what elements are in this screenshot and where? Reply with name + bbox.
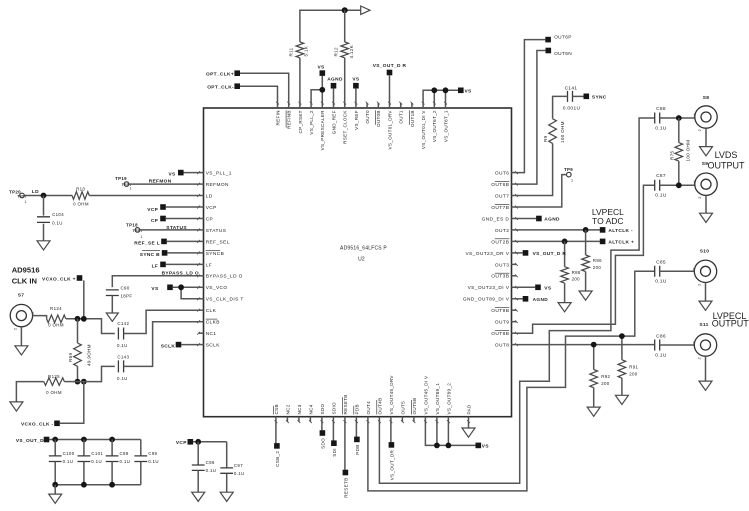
- junction VS_OUT89_1: [434, 443, 440, 449]
- svg-text:R10: R10: [76, 187, 85, 192]
- wire S8 to ground: [705, 128, 707, 146]
- svg-text:OUT3B: OUT3B: [491, 274, 509, 280]
- node VS_OUT_DR terminal: [390, 422, 392, 443]
- ground below decoupling bank: [49, 494, 62, 503]
- node OPT_CLK- terminal: [234, 83, 240, 89]
- wire VS_OUT23_DRV to VS_OUT_D R: [517, 252, 523, 254]
- pin OUT8 (right): [512, 344, 517, 346]
- svg-text:OUT9B: OUT9B: [491, 308, 509, 314]
- wire TP20 to R10: [24, 195, 72, 197]
- wire GND_ESD pin to AGND: [517, 218, 537, 220]
- pin VS_OUT45_DI V (bottom): [424, 417, 426, 422]
- pin OUT7B (right): [512, 206, 517, 208]
- svg-text:REF_SE L: REF_SE L: [134, 241, 160, 247]
- junction VS_OUT89_2: [446, 443, 452, 449]
- svg-text:TP19: TP19: [115, 176, 127, 181]
- svg-text:U2: U2: [358, 257, 365, 263]
- resistor R10: [72, 192, 89, 200]
- wire C85 to S10: [660, 270, 695, 272]
- pin RESETB (bottom): [344, 417, 346, 422]
- capacitor C99: [140, 440, 142, 456]
- svg-text:C86: C86: [656, 333, 666, 339]
- svg-text:OUTPUT: OUTPUT: [712, 319, 749, 329]
- svg-text:REFMON: REFMON: [206, 182, 229, 188]
- wire TP18 to STATUS pin: [140, 229, 199, 231]
- wire C88 to S8: [660, 117, 695, 119]
- wire R11/R12 top rail to off-page arrow: [300, 10, 361, 42]
- pin OUT6B (right): [512, 183, 517, 185]
- svg-text:TP9: TP9: [564, 167, 573, 172]
- svg-text:OUT2B: OUT2B: [491, 239, 509, 245]
- pin LF (left): [199, 263, 204, 265]
- svg-text:OUT9: OUT9: [495, 320, 509, 326]
- svg-text:NC2: NC2: [285, 404, 290, 414]
- svg-text:0.1U: 0.1U: [117, 343, 128, 348]
- svg-text:VS: VS: [352, 77, 360, 83]
- pin CLKB (left): [199, 321, 204, 323]
- node AGND terminal (GND_OUT89_DIV): [523, 296, 529, 302]
- pin REF_SEL (left): [199, 240, 204, 242]
- pin VS_PLL_1 (left): [199, 172, 204, 174]
- svg-text:REFIN: REFIN: [275, 110, 280, 125]
- svg-text:LF: LF: [206, 262, 212, 268]
- svg-text:0.1U: 0.1U: [206, 468, 217, 473]
- resistor R91: [621, 336, 623, 360]
- junction C100 bottom: [52, 482, 58, 488]
- pin NC2 (bottom): [286, 417, 288, 422]
- svg-text:OUT6B: OUT6B: [491, 182, 509, 188]
- svg-text:C85: C85: [656, 259, 666, 265]
- pin VS_PRESCALER (top): [321, 103, 323, 108]
- svg-text:GND_ES D: GND_ES D: [482, 216, 510, 222]
- pin OUT5 (bottom): [401, 417, 403, 422]
- svg-text:C96: C96: [206, 460, 215, 465]
- wire R10 to LD pin: [89, 195, 198, 197]
- svg-text:SCLK: SCLK: [161, 344, 176, 350]
- svg-text:CP_RSET: CP_RSET: [298, 110, 303, 133]
- svg-text:R91: R91: [629, 365, 638, 370]
- wire OUT4 route to C85 (S10): [368, 271, 655, 491]
- svg-text:S10: S10: [700, 249, 710, 255]
- pin OUT3B (right): [512, 275, 517, 277]
- svg-text:GND_OUT89_DI V: GND_OUT89_DI V: [463, 297, 510, 303]
- node VS_OUT_D R terminal (right): [523, 250, 529, 256]
- resistor R124: [47, 315, 66, 323]
- svg-text:LVDS: LVDS: [715, 150, 738, 160]
- svg-text:0.1U: 0.1U: [655, 125, 667, 131]
- pin OUT4B (bottom): [378, 417, 380, 422]
- pin OUT2B (right): [512, 240, 517, 242]
- capacitor C97: [226, 442, 228, 468]
- pin VS_PLL_2 (top): [310, 103, 312, 108]
- svg-text:R11: R11: [289, 47, 294, 56]
- ground below S10: [699, 301, 712, 310]
- node SYNC terminal: [584, 94, 590, 100]
- wire REF_SEL: [167, 240, 199, 242]
- svg-text:R9: R9: [543, 135, 548, 142]
- junction C98 bottom: [109, 482, 115, 488]
- wire OUT8 route to C86 (S11): [517, 344, 655, 346]
- pin PAD (bottom): [468, 417, 470, 422]
- capacitor C96: [197, 442, 199, 465]
- svg-text:C90: C90: [121, 286, 130, 291]
- resistor R75: [678, 118, 680, 143]
- pin NC3 (bottom): [298, 417, 300, 422]
- wire VCP bus: [193, 441, 227, 443]
- svg-text:C88: C88: [656, 106, 666, 112]
- svg-text:200: 200: [629, 371, 638, 376]
- junction R86 top: [583, 227, 589, 233]
- ground below S11: [699, 381, 712, 390]
- pin CP (left): [199, 218, 204, 220]
- pin VS_OUT89_2 (bottom): [447, 417, 449, 422]
- node PDB terminal: [355, 422, 357, 437]
- pin VCP (left): [199, 206, 204, 208]
- svg-text:4.12K: 4.12K: [349, 44, 354, 58]
- wire PAD to ground: [468, 422, 470, 428]
- svg-text:OUT8B: OUT8B: [491, 331, 509, 337]
- ground below R86: [579, 291, 592, 300]
- svg-text:PDB: PDB: [354, 404, 359, 414]
- node OPT_CLK+ terminal: [234, 70, 240, 76]
- resistor R11: [296, 42, 304, 58]
- pin OUT4 (bottom): [367, 417, 369, 422]
- wire decoupling top bus: [49, 439, 141, 441]
- pin VS_OUT45_DRV (bottom): [390, 417, 392, 422]
- svg-text:PDB: PDB: [355, 444, 360, 454]
- svg-text:OUT1B: OUT1B: [410, 110, 415, 127]
- svg-text:REF_SEL: REF_SEL: [206, 239, 230, 245]
- capacitor C90: [106, 290, 119, 296]
- pin VS_OUT23_DI V (right): [512, 286, 517, 288]
- svg-text:R124: R124: [50, 306, 62, 311]
- svg-text:NC4: NC4: [308, 404, 313, 414]
- capacitor C98: [111, 440, 113, 456]
- svg-text:C100: C100: [63, 451, 75, 456]
- svg-text:VCP: VCP: [206, 205, 217, 211]
- svg-text:ALTCLK +: ALTCLK +: [608, 240, 634, 246]
- junction R75 bottom: [676, 182, 682, 188]
- svg-text:0.1U: 0.1U: [655, 279, 667, 285]
- wire SYNCB: [167, 252, 198, 254]
- ground below C97: [220, 492, 233, 501]
- wire clock- node: [78, 366, 115, 381]
- svg-text:R75: R75: [670, 151, 675, 160]
- svg-text:OUT5: OUT5: [400, 401, 405, 415]
- node OUT6N terminal: [546, 48, 552, 54]
- pin VS_OUT01_DRV (top): [389, 103, 391, 108]
- resistor R69: [77, 319, 79, 343]
- svg-text:RSET_CLOCK: RSET_CLOCK: [343, 110, 348, 144]
- pin OUT6 (right): [512, 172, 517, 174]
- pin RSET_CLOCK (top): [344, 103, 346, 108]
- pin LD (left): [199, 195, 204, 197]
- wire OUT4B route to C88 (S8): [379, 118, 654, 483]
- svg-text:0.001U: 0.001U: [563, 106, 581, 112]
- svg-text:1: 1: [141, 235, 143, 239]
- svg-text:VCXO_CLK +: VCXO_CLK +: [42, 277, 76, 283]
- svg-text:49.9OHM: 49.9OHM: [87, 344, 92, 366]
- wire C141 to SYNC: [573, 95, 584, 97]
- svg-text:0.1U: 0.1U: [655, 352, 667, 358]
- wire OUT8B route to C87 (S9): [517, 185, 655, 333]
- resistor R88: [564, 241, 566, 266]
- svg-text:VS_PRESCALER: VS_PRESCALER: [320, 110, 325, 150]
- svg-text:VS_OUT_D R: VS_OUT_D R: [373, 63, 407, 69]
- wire S9 to ground: [705, 195, 707, 213]
- pin REFMON (left): [199, 183, 204, 185]
- pin VS_OUT23_DR V (right): [512, 252, 517, 254]
- junction R12 top: [342, 7, 348, 13]
- svg-text:CP: CP: [151, 218, 159, 224]
- svg-text:REFINB: REFINB: [287, 110, 292, 129]
- wire bank to ground: [54, 485, 56, 494]
- svg-text:VCP: VCP: [147, 207, 158, 213]
- pin OUT0B (top): [377, 103, 379, 108]
- svg-text:0.1U: 0.1U: [120, 459, 131, 464]
- ground below C96: [192, 492, 205, 501]
- svg-text:0.1U: 0.1U: [148, 459, 159, 464]
- svg-text:LF: LF: [152, 264, 159, 270]
- svg-text:R69: R69: [68, 353, 73, 362]
- svg-text:OUT6N: OUT6N: [554, 51, 572, 57]
- svg-text:C98: C98: [120, 451, 129, 456]
- svg-text:STATUS: STATUS: [206, 228, 227, 234]
- pin VS_OUT89_1 (bottom): [436, 417, 438, 422]
- wire CP: [166, 218, 199, 220]
- ground below S9: [700, 213, 713, 222]
- pin PDB (bottom): [355, 417, 357, 422]
- ground below C104: [37, 241, 50, 250]
- ground below R92: [587, 407, 600, 416]
- wire VS to VS_PRESCALER and VS_PLL_2: [321, 76, 323, 103]
- svg-text:VS_OUT6T_1: VS_OUT6T_1: [443, 110, 448, 142]
- junction R88 top: [562, 239, 568, 245]
- svg-text:NC1: NC1: [206, 331, 217, 337]
- svg-text:SYNCB: SYNCB: [206, 251, 225, 257]
- svg-text:C87: C87: [656, 173, 666, 179]
- svg-text:VS: VS: [465, 89, 473, 95]
- node OUT6P terminal: [545, 37, 551, 43]
- svg-text:C97: C97: [234, 463, 243, 468]
- wire OPT_CLK+ to REFINB: [240, 73, 289, 103]
- svg-text:VS: VS: [482, 444, 490, 450]
- wire VS to VS_VCO / VS_CLK_DIST: [173, 286, 199, 288]
- pin OUT9 (right): [512, 321, 517, 323]
- svg-text:0.1U: 0.1U: [234, 471, 245, 476]
- ground below S8: [700, 147, 713, 156]
- svg-text:CP: CP: [206, 216, 213, 222]
- svg-text:200: 200: [593, 265, 602, 270]
- wire R9 bottom to OUT7 pin: [517, 143, 553, 195]
- pin VS_OUT6T_2 (top): [433, 103, 435, 108]
- svg-text:NC3: NC3: [297, 404, 302, 414]
- wire C142 to CLK pin: [124, 310, 199, 333]
- svg-text:OUT4: OUT4: [366, 401, 371, 415]
- svg-text:C142: C142: [117, 321, 129, 326]
- junction VS_OUT6T_2: [431, 87, 437, 93]
- pin NC4 (bottom): [309, 417, 311, 422]
- pin OUT7 (right): [512, 195, 517, 197]
- svg-text:OUT2: OUT2: [495, 228, 509, 234]
- resistor R12: [344, 10, 346, 42]
- svg-text:VS_OUT6T_2: VS_OUT6T_2: [432, 110, 437, 142]
- junction clock- node B: [81, 379, 87, 385]
- svg-text:OUT7B: OUT7B: [491, 205, 509, 211]
- svg-text:OUT4B: OUT4B: [377, 398, 382, 415]
- wire S11 to ground: [705, 356, 707, 381]
- svg-text:0 OHM: 0 OHM: [48, 322, 64, 327]
- pin GND_REF (top): [333, 103, 335, 108]
- pin OUT5B (bottom): [413, 417, 415, 422]
- svg-text:OUTPUT: OUTPUT: [708, 161, 746, 171]
- ground below R88: [558, 303, 571, 312]
- wire SCLK: [181, 344, 198, 346]
- wire decoupling bottom bus: [55, 484, 141, 486]
- junction R75 top: [676, 115, 682, 121]
- junction clock+ node B: [81, 316, 87, 322]
- pin VS_VCO (left): [199, 286, 204, 288]
- wire OPT_CLK- to REFIN: [240, 86, 278, 103]
- svg-text:C104: C104: [52, 212, 64, 217]
- wire OUT2 to ALTCLK-: [517, 229, 600, 231]
- junction C104 top: [41, 193, 47, 199]
- svg-text:CLK: CLK: [206, 308, 217, 314]
- svg-text:OUT0B: OUT0B: [376, 110, 381, 127]
- junction VS_VCO rail: [178, 284, 184, 290]
- capacitor C101: [83, 440, 85, 456]
- pin OUT0 (top): [366, 103, 368, 108]
- svg-text:0 OHM: 0 OHM: [46, 390, 62, 395]
- svg-text:VS: VS: [544, 285, 552, 291]
- svg-text:OUT6: OUT6: [495, 171, 509, 177]
- wire C143 to CLKB pin: [124, 322, 199, 367]
- node SDO terminal: [321, 422, 323, 431]
- svg-text:OUT1: OUT1: [399, 110, 404, 124]
- node AGND (GND_ESD): [536, 216, 542, 222]
- svg-text:VS_OUT23_DR V: VS_OUT23_DR V: [465, 251, 509, 257]
- svg-text:AD9516_64LFCS P: AD9516_64LFCS P: [340, 246, 387, 252]
- svg-text:VCXO_CLK -: VCXO_CLK -: [21, 422, 54, 428]
- pin OUT9B (right): [512, 309, 517, 311]
- svg-text:0 OHM: 0 OHM: [73, 201, 89, 206]
- svg-text:SDI: SDI: [332, 448, 337, 457]
- node RESETB terminal: [344, 422, 346, 470]
- svg-text:S8: S8: [703, 95, 710, 101]
- svg-text:OUT8: OUT8: [495, 343, 509, 349]
- pin SDIO (bottom): [332, 417, 334, 422]
- svg-text:C101: C101: [91, 451, 103, 456]
- svg-text:VS_OUT45_DRV: VS_OUT45_DRV: [389, 375, 394, 415]
- wire OUT6B pin to OUT6N: [517, 51, 546, 185]
- node ALTCLK- terminal: [600, 227, 606, 233]
- wire S7 to ground: [20, 327, 22, 346]
- svg-text:R92: R92: [601, 374, 610, 379]
- svg-text:VS_REF: VS_REF: [354, 110, 359, 130]
- pin STATUS (left): [199, 229, 204, 231]
- wire C86 to S11: [660, 344, 695, 346]
- svg-text:S7: S7: [18, 292, 25, 298]
- pin GND_ES D (right): [512, 218, 517, 220]
- capacitor C104: [43, 196, 45, 216]
- wire S10 to ground: [705, 283, 707, 302]
- junction C98 top: [109, 437, 115, 443]
- svg-text:R88: R88: [572, 270, 581, 275]
- resistor R92: [593, 345, 595, 370]
- svg-text:VS_OUT_D: VS_OUT_D: [16, 438, 44, 444]
- svg-text:OUT7: OUT7: [495, 193, 509, 199]
- svg-text:VS_OUT89_2: VS_OUT89_2: [446, 383, 451, 415]
- wire C141 left lead to R9: [553, 96, 568, 118]
- off-page arrow (R-set rail): [361, 6, 370, 14]
- IC U2 AD9516_64LFCS P body: [204, 108, 512, 417]
- wire VS rail over VS_OUT01_DIV / VS_OUT6T pins: [423, 90, 458, 103]
- svg-text:SYNC: SYNC: [592, 94, 607, 100]
- svg-text:0.1U: 0.1U: [117, 376, 128, 381]
- wire clock+ node: [66, 319, 115, 334]
- resistor R125: [64, 381, 77, 383]
- pin REFINB (top): [288, 103, 290, 108]
- svg-text:1: 1: [571, 179, 573, 183]
- svg-text:CSB_2: CSB_2: [275, 451, 280, 467]
- svg-text:VS_CLK_DIS T: VS_CLK_DIS T: [206, 297, 244, 303]
- pin OUT3 (right): [512, 263, 517, 265]
- svg-text:PAD: PAD: [466, 404, 471, 414]
- junction clock+ node A: [75, 316, 81, 322]
- svg-text:C143: C143: [117, 355, 129, 360]
- pin VS_REF (top): [355, 103, 357, 108]
- svg-text:VS_OUT89_1: VS_OUT89_1: [435, 383, 440, 415]
- wire OUT2B to ALTCLK+: [517, 240, 600, 242]
- capacitor C100: [54, 440, 56, 456]
- svg-text:OPT_CLK-: OPT_CLK-: [207, 85, 234, 91]
- svg-text:VS: VS: [317, 64, 325, 70]
- svg-text:LD: LD: [206, 193, 213, 199]
- resistor R9: [549, 119, 557, 144]
- node SDI terminal: [332, 422, 334, 441]
- svg-text:OUT0: OUT0: [365, 110, 370, 124]
- node ALTCLK+ terminal: [600, 239, 606, 245]
- svg-text:0.1U: 0.1U: [91, 459, 102, 464]
- svg-text:VS_OUT_D R: VS_OUT_D R: [533, 251, 567, 257]
- svg-text:TP18: TP18: [126, 222, 138, 227]
- svg-text:S11: S11: [699, 322, 708, 328]
- svg-text:TO ADC: TO ADC: [592, 216, 624, 226]
- pin GND_OUT89_DI V (right): [512, 298, 517, 300]
- junction clock- node A: [75, 379, 81, 385]
- svg-text:VS_OUT_DR: VS_OUT_DR: [390, 450, 395, 481]
- svg-text:VS: VS: [168, 171, 176, 177]
- pin VS_CLK_DIS T (left): [199, 298, 204, 300]
- svg-text:AGND: AGND: [533, 297, 549, 303]
- svg-text:18PF: 18PF: [121, 294, 133, 299]
- svg-text:VS_OUT01_DI V: VS_OUT01_DI V: [421, 110, 426, 150]
- pin SYNCB (left): [199, 252, 204, 254]
- wire LF: [166, 263, 199, 265]
- svg-text:0.1U: 0.1U: [52, 220, 63, 225]
- svg-text:R12: R12: [334, 47, 339, 56]
- svg-text:CLK IN: CLK IN: [12, 277, 37, 286]
- wire C87 to S9: [660, 184, 695, 186]
- wire TP19 to REFMON pin: [129, 183, 199, 185]
- svg-text:R125: R125: [48, 374, 60, 379]
- svg-text:VS: VS: [151, 286, 159, 292]
- pin REFIN (top): [277, 103, 279, 108]
- wire OUT6 pin to OUT6P: [517, 40, 546, 173]
- wire VCXO_CLK+ down to clock node: [83, 280, 85, 318]
- pin OUT2 (right): [512, 229, 517, 231]
- svg-text:LD: LD: [32, 189, 39, 195]
